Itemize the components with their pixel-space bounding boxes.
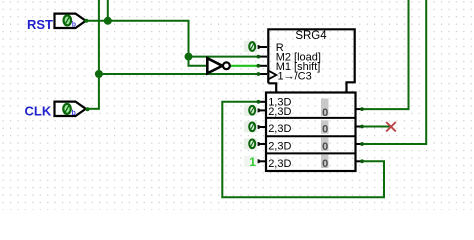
pin stub D2 (258, 143, 267, 145)
svg-text:1: 1 (249, 155, 256, 169)
value label 0 at R input (244, 41, 258, 52)
clock triangle on C3 (268, 71, 276, 80)
wire: Q3 output feedback loop to serial input 1,3D (222, 102, 384, 197)
pin stub Q0 (355, 108, 362, 110)
svg-text:0: 0 (322, 141, 328, 153)
wire: inverter output to M1 [shift] input (high) (230, 65, 259, 67)
svg-text:RST: RST (27, 17, 53, 32)
svg-text:2,3D: 2,3D (268, 123, 291, 135)
input pin CLK (25, 102, 90, 119)
wire: CLK pin to vertical net (86, 108, 100, 110)
wire: Q1 output stub to open end (362, 126, 393, 128)
pin stub R (258, 46, 267, 48)
pin stub D1 (258, 126, 267, 128)
pin stub 1,3D (258, 101, 267, 103)
svg-text:0: 0 (322, 107, 328, 119)
wire: vertical stub from top edge into RST net (107, 0, 109, 21)
cell separator 1 (266, 117, 356, 119)
value label 1 at D3 input (244, 155, 258, 169)
wire: Q2 output to right vertical feedback (362, 0, 427, 144)
pin stub D0 (258, 109, 267, 111)
pin stub Q1 (355, 126, 362, 128)
register value box cell3 (321, 138, 329, 151)
svg-text:SRG4: SRG4 (295, 30, 327, 42)
value label 0 at D2 input (244, 138, 258, 149)
cell separator 2 (266, 135, 356, 137)
svg-text:1→/C3: 1→/C3 (278, 70, 312, 82)
register block outline (266, 93, 356, 172)
inverter (NOT gate) (207, 58, 230, 73)
control block outline (268, 29, 354, 92)
pin stub Q2 (355, 143, 362, 145)
svg-text:2,3D: 2,3D (268, 106, 291, 118)
wire: clock line to SRG4 C3 input (99, 73, 259, 75)
svg-text:0: 0 (322, 158, 328, 170)
svg-text:CLK: CLK (25, 103, 52, 118)
shift register U1 SRG4 (256, 29, 364, 171)
node: junction RST branch (185, 53, 193, 61)
register value box cell4 (321, 155, 329, 168)
wire: RST pin to inverter branch (86, 21, 189, 57)
value label 0 at D0 input (244, 105, 258, 116)
error marker: open wire end red cross (386, 122, 396, 131)
pin stub M1 (258, 65, 267, 67)
register value box cell2 (321, 120, 329, 133)
pin stub Q3 (355, 160, 362, 162)
node: junction on clock net (95, 70, 103, 78)
wire: branch to M2 [load] input (189, 56, 259, 58)
value label 0 at D1 input (244, 121, 258, 132)
svg-text:0: 0 (322, 124, 328, 136)
register value box cell1 (321, 99, 329, 117)
svg-text:b: b (72, 110, 76, 117)
cell separator 3 (266, 152, 356, 154)
pin stub C3 (258, 73, 267, 75)
wire: branch down to inverter input (189, 57, 208, 66)
svg-text:b: b (72, 22, 76, 29)
wire: vertical net from top edge to CLK corner (98, 0, 100, 109)
node: junction on RST net (104, 17, 112, 25)
input pin RST (27, 14, 88, 32)
wire: Q0 output to right vertical feedback (362, 0, 409, 109)
pin stub M2 (258, 56, 267, 58)
pin stub D3 (258, 160, 267, 162)
svg-text:2,3D: 2,3D (268, 141, 291, 153)
svg-text:2,3D: 2,3D (268, 158, 291, 170)
